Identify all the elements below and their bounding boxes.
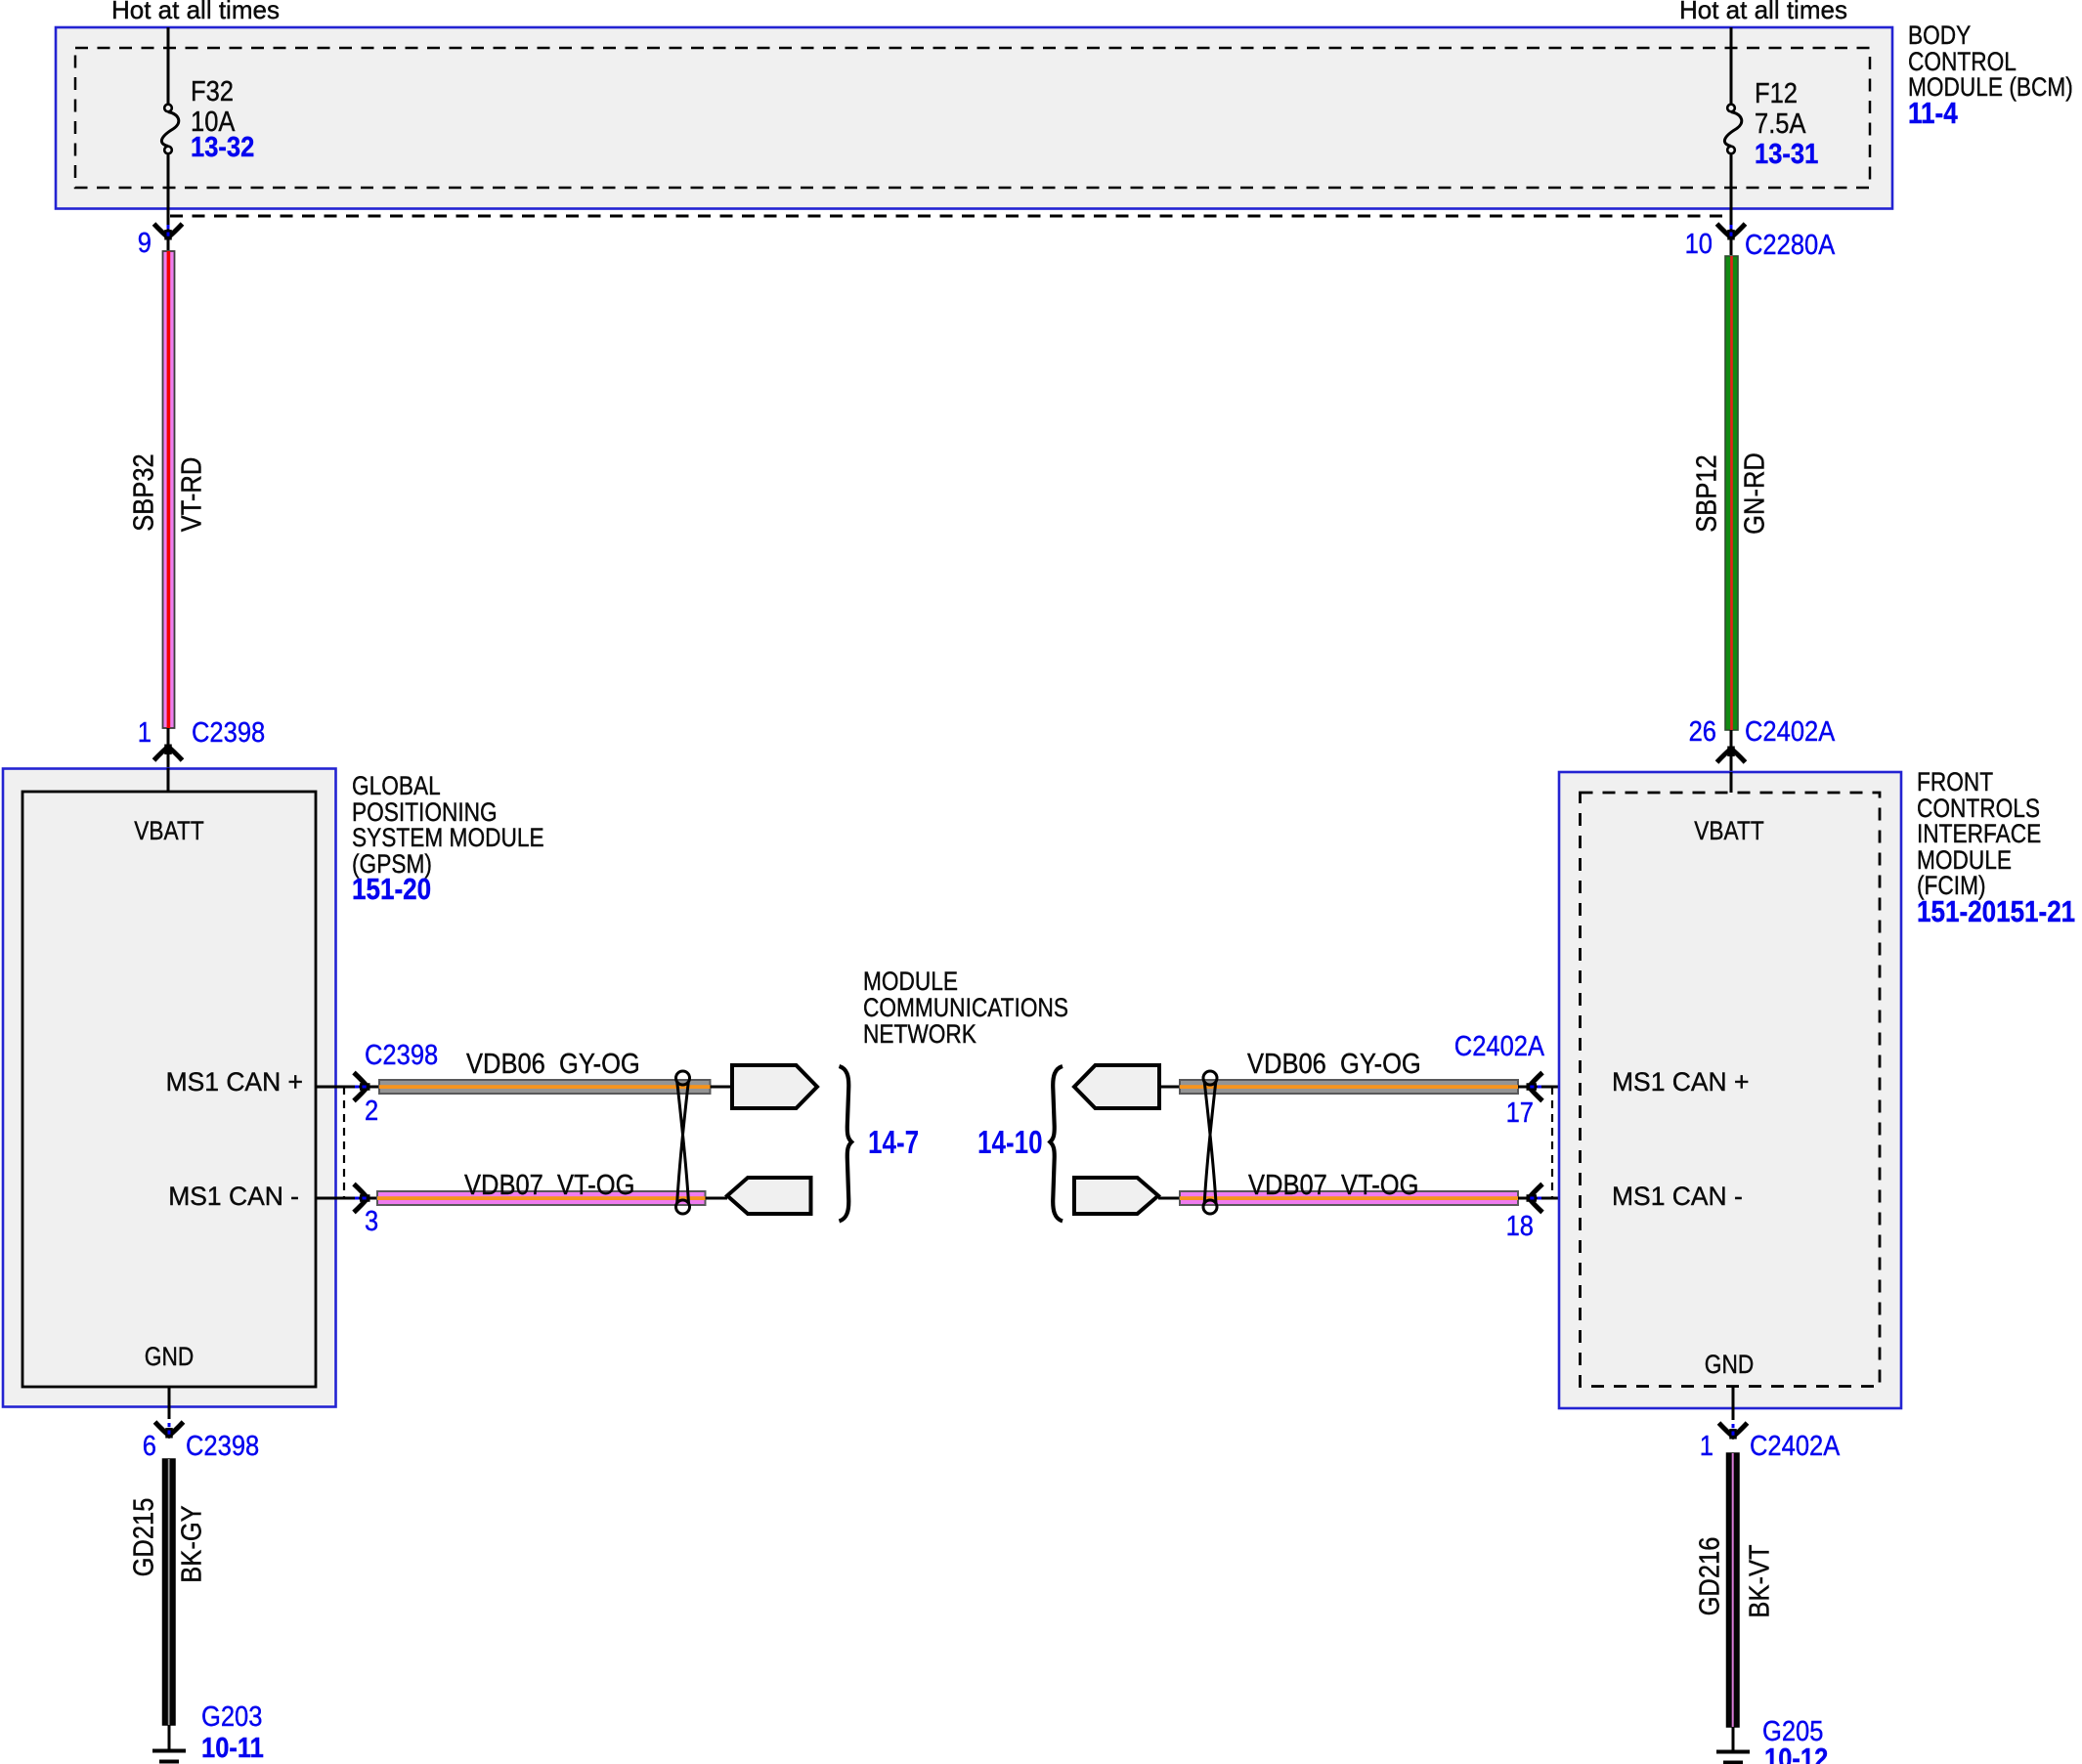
pin number 6 (GPSM GND) <box>143 1433 156 1461</box>
module BCM inner dashed outline <box>75 48 1870 188</box>
page ref 10-12 <box>1764 1745 1828 1764</box>
wire stub pin1 to GPSM <box>167 728 170 768</box>
pin number 2 <box>365 1097 378 1126</box>
wire link to flag VDB06 left <box>711 1086 733 1089</box>
wire label SBP32 <box>131 453 159 531</box>
GPSM GND pin label <box>145 1344 194 1370</box>
wire stub FCIM GND <box>1732 1387 1735 1421</box>
pin number 9 <box>138 230 152 258</box>
off-page flag VDB07 right <box>1074 1178 1158 1214</box>
ground label G205 <box>1762 1718 1823 1746</box>
module BCM name label <box>1908 22 2073 127</box>
connector label C2398 (CAN pins) <box>365 1042 438 1070</box>
fuse F32 10A <box>161 27 178 250</box>
connector pin 26 arrow (FCIM C2402A VBATT) <box>1717 747 1746 763</box>
ground label G203 <box>201 1703 262 1732</box>
connector C2398 dashed link <box>343 1087 345 1198</box>
wire label GD216 <box>1697 1537 1725 1616</box>
FCIM GND pin label <box>1705 1352 1754 1378</box>
twisted pair symbol right <box>1203 1071 1217 1214</box>
module FCIM box <box>1559 772 1901 1408</box>
wire label VDB07 VT-OG (left) <box>464 1172 634 1200</box>
wire GD215 BK-GY (black with gray stripe) <box>163 1459 176 1725</box>
ground G205 symbol <box>1716 1752 1750 1764</box>
GPSM MS1 CAN + pin label <box>166 1069 303 1096</box>
wire label VDB06 GY-OG (right) <box>1247 1051 1421 1079</box>
connector pin 3 arrow (GPSM C2398) <box>354 1184 370 1213</box>
page ref 13-32 <box>191 134 254 162</box>
wire stub GPSM VBATT <box>167 768 170 792</box>
wire stub FCIM VBATT <box>1730 772 1733 793</box>
wire link to flag VDB07 left <box>706 1197 728 1200</box>
fuse F12 value labels <box>1755 80 1798 108</box>
wire label GD215 <box>131 1498 159 1577</box>
connector label C2402A (GND) <box>1750 1433 1840 1461</box>
FCIM MS1 CAN - pin label <box>1612 1183 1743 1210</box>
wire stub pin26 to FCIM <box>1730 730 1733 772</box>
wire stub GPSM MS1 CAN- <box>316 1197 377 1200</box>
wire SBP32 VT-RD (violet with red stripe) <box>163 251 175 728</box>
pin number 18 <box>1506 1213 1534 1241</box>
pin number 26 (FCIM VBATT) <box>1689 718 1716 747</box>
module GPSM name label <box>352 773 544 904</box>
wire label VDB06 GY-OG (left) <box>466 1051 640 1079</box>
connector label C2280A <box>1745 232 1835 260</box>
wire label GN-RD <box>1742 452 1770 535</box>
connector pin 2 arrow (GPSM C2398) <box>354 1073 370 1101</box>
page ref 13-31 <box>1755 141 1818 169</box>
ground G203 symbol <box>152 1751 186 1764</box>
connector label C2398 (GND) <box>186 1433 259 1461</box>
wire label VDB07 VT-OG (right) <box>1248 1172 1418 1200</box>
wire label BK-VT <box>1747 1544 1775 1617</box>
connector pin 9 arrow (BCM C2280A) <box>154 224 183 240</box>
wire VDB06 GY-OG left segment <box>379 1080 711 1094</box>
connector pin 1 arrow (GPSM C2398 VBATT) <box>154 745 183 761</box>
module FCIM inner dashed box <box>1581 793 1881 1387</box>
module GPSM box <box>3 769 336 1407</box>
GPSM VBATT pin label <box>134 818 203 844</box>
pin number 17 <box>1506 1099 1534 1128</box>
wire link from flag VDB06 right <box>1159 1086 1180 1089</box>
connector pin 6 arrow (GPSM C2398 GND) <box>155 1422 184 1439</box>
wire label SBP12 <box>1694 454 1722 532</box>
GPSM MS1 CAN - pin label <box>168 1183 299 1210</box>
pin number 3 <box>365 1208 378 1236</box>
module BCM box <box>56 27 1892 209</box>
pin number 10 <box>1685 231 1713 259</box>
FCIM MS1 CAN + pin label <box>1612 1069 1749 1096</box>
connector C2402A dashed link <box>1551 1087 1553 1198</box>
page ref 10-11 <box>201 1735 264 1763</box>
connector pin 1 arrow (FCIM C2402A GND) <box>1719 1423 1748 1440</box>
net label MODULE COMMUNICATIONS NETWORK <box>863 968 1068 1048</box>
off-page flag VDB06 right <box>1074 1065 1159 1108</box>
wire stub FCIM MS1 CAN+ <box>1518 1086 1580 1089</box>
connector pin 17 arrow (FCIM C2402A) <box>1527 1073 1543 1101</box>
connector label C2402A (FCIM VBATT) <box>1745 718 1835 747</box>
connector pin 10 arrow (BCM C2280A) <box>1717 224 1746 240</box>
wire stub GPSM MS1 CAN+ <box>316 1086 379 1089</box>
fuse F12 7.5A <box>1724 27 1741 255</box>
brace left of right flags (14-10) <box>1050 1066 1063 1222</box>
wire link from flag VDB07 right <box>1158 1197 1180 1200</box>
module FCIM name label <box>1917 769 2075 925</box>
wire SBP12 GN-RD (green with red stripe) <box>1725 256 1738 730</box>
wire VDB06 GY-OG right segment <box>1180 1080 1518 1094</box>
page ref 14-7 <box>868 1126 919 1158</box>
brace right of left flags (14-7) <box>840 1066 852 1222</box>
off-page flag VDB07 left <box>727 1178 811 1214</box>
pin number 1 (FCIM GND) <box>1700 1433 1713 1461</box>
connector label C2398 (GPSM VBATT) <box>192 719 265 748</box>
fuse F32 value labels <box>191 78 234 107</box>
wire stub FCIM MS1 CAN- <box>1518 1197 1580 1200</box>
wire VDB07 VT-OG right segment <box>1180 1191 1518 1205</box>
wire stub GPSM GND <box>168 1387 171 1419</box>
node: Hot at all times (left feed) <box>111 0 280 22</box>
off-page flag VDB06 left <box>732 1065 817 1108</box>
FCIM VBATT pin label <box>1694 818 1763 844</box>
page ref 14-10 <box>977 1126 1043 1158</box>
connector pin 18 arrow (FCIM C2402A) <box>1527 1184 1543 1213</box>
wire VDB07 VT-OG left segment <box>377 1191 706 1205</box>
pin number 1 (GPSM VBATT) <box>138 719 152 748</box>
connector C2280A dashed link line <box>170 215 1726 218</box>
node: Hot at all times (right feed) <box>1679 0 1847 22</box>
wire GD216 BK-VT (black with violet stripe) <box>1727 1453 1740 1727</box>
twisted pair symbol left <box>676 1071 690 1214</box>
wire link to ground G203 <box>168 1725 171 1749</box>
wire label VT-RD <box>179 457 207 533</box>
wire label BK-GY <box>179 1505 207 1582</box>
connector label C2402A (CAN pins) <box>1454 1033 1544 1061</box>
module GPSM inner box <box>22 792 316 1387</box>
wire link to ground G205 <box>1732 1727 1735 1750</box>
